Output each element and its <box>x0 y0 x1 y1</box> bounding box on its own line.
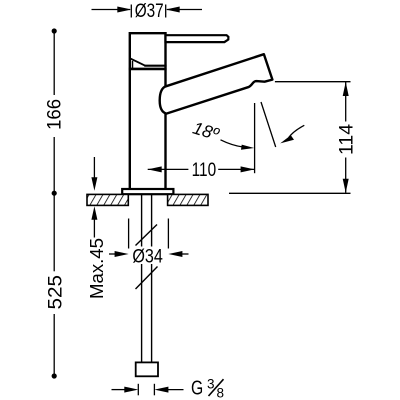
dim Ø34 tick left <box>128 219 130 249</box>
dim 114 line lower <box>345 158 347 193</box>
dim Max.45 arrow up <box>91 206 97 220</box>
dim shared dot <box>52 191 57 196</box>
body top joint line <box>129 68 167 71</box>
svg-text:525: 525 <box>46 275 67 310</box>
cap bottom joint line <box>144 65 166 67</box>
dim Ø34 text backing <box>130 247 166 265</box>
dim 110 arrow right <box>241 166 255 172</box>
svg-text:Ø34: Ø34 <box>132 246 163 267</box>
dim Ø37 tick left <box>130 5 132 18</box>
svg-text:110: 110 <box>192 160 217 181</box>
dim 525 dot bottom <box>52 373 57 378</box>
dim Ø34 arrow left <box>115 251 129 257</box>
handle lever <box>166 35 229 42</box>
dim Ø37 line right <box>167 9 202 11</box>
countertop right section <box>168 194 208 205</box>
dim Ø34 arrow right <box>168 251 182 257</box>
base plate <box>122 189 173 194</box>
dim Max.45 upper line <box>93 157 95 179</box>
dim 525 line lower <box>53 314 55 376</box>
pipe break slash lower <box>136 267 158 290</box>
rotation arrow curve <box>289 125 305 137</box>
faucet body <box>130 33 166 189</box>
supply pipe left line <box>141 194 143 363</box>
svg-text:166: 166 <box>44 99 65 130</box>
dim G3/8 arrow left <box>124 387 138 393</box>
dim Ø37 line left <box>92 9 131 11</box>
dim 114 arrow down <box>343 179 349 193</box>
dim Ø34 tail left <box>109 253 117 255</box>
dim G3/8 arrow right <box>154 387 168 393</box>
svg-text:Max.45: Max.45 <box>86 238 107 299</box>
dim 114 ext line top <box>275 81 351 83</box>
dim Ø34 tick right <box>167 219 169 249</box>
angle leader arrowhead <box>241 145 254 150</box>
dim G3/8 tick right <box>153 384 155 396</box>
dim 525 line upper <box>53 193 55 271</box>
dim G3/8 fraction slash <box>209 379 224 396</box>
dim Ø34 tail right <box>181 253 189 255</box>
dim Max.45 lower line <box>93 218 95 238</box>
supply pipe right line <box>151 194 153 363</box>
countertop left section <box>87 194 128 205</box>
dim G3/8 line left <box>112 389 127 391</box>
dim 114 arrow up <box>343 82 349 96</box>
angle leader curve <box>221 140 244 147</box>
svg-text:114: 114 <box>337 124 358 155</box>
svg-text:Ø37: Ø37 <box>135 1 164 22</box>
stream vertical line <box>254 103 256 173</box>
svg-text:G: G <box>191 378 203 400</box>
dim Max.45 arrow down <box>91 177 97 191</box>
dim 110 line left <box>148 168 189 170</box>
connector nut <box>136 362 158 376</box>
dim 110 line right <box>218 168 254 170</box>
dim 114 line upper <box>345 82 347 122</box>
pipe break slash upper <box>136 225 158 246</box>
dim Ø37 tick right <box>165 5 167 18</box>
dim 166 line lower <box>53 137 55 193</box>
svg-text:8: 8 <box>217 386 225 400</box>
dim Ø37 arrow right <box>166 7 180 13</box>
dim Ø37 arrow left <box>117 7 131 13</box>
dim 110 arrow left <box>148 166 162 172</box>
cap parting vertical tick <box>132 61 134 68</box>
dim 166 dot top <box>52 28 57 33</box>
svg-text:3: 3 <box>207 377 215 392</box>
spout <box>160 54 273 113</box>
stream tilted line <box>261 102 276 147</box>
dim 114 ext line bottom <box>229 192 351 194</box>
dim G3/8 tick left <box>137 384 139 396</box>
cap parting angled line <box>130 58 146 65</box>
dim 166 line upper <box>53 31 55 95</box>
rotation arrowhead <box>280 135 294 143</box>
dim G3/8 line right <box>167 389 184 391</box>
